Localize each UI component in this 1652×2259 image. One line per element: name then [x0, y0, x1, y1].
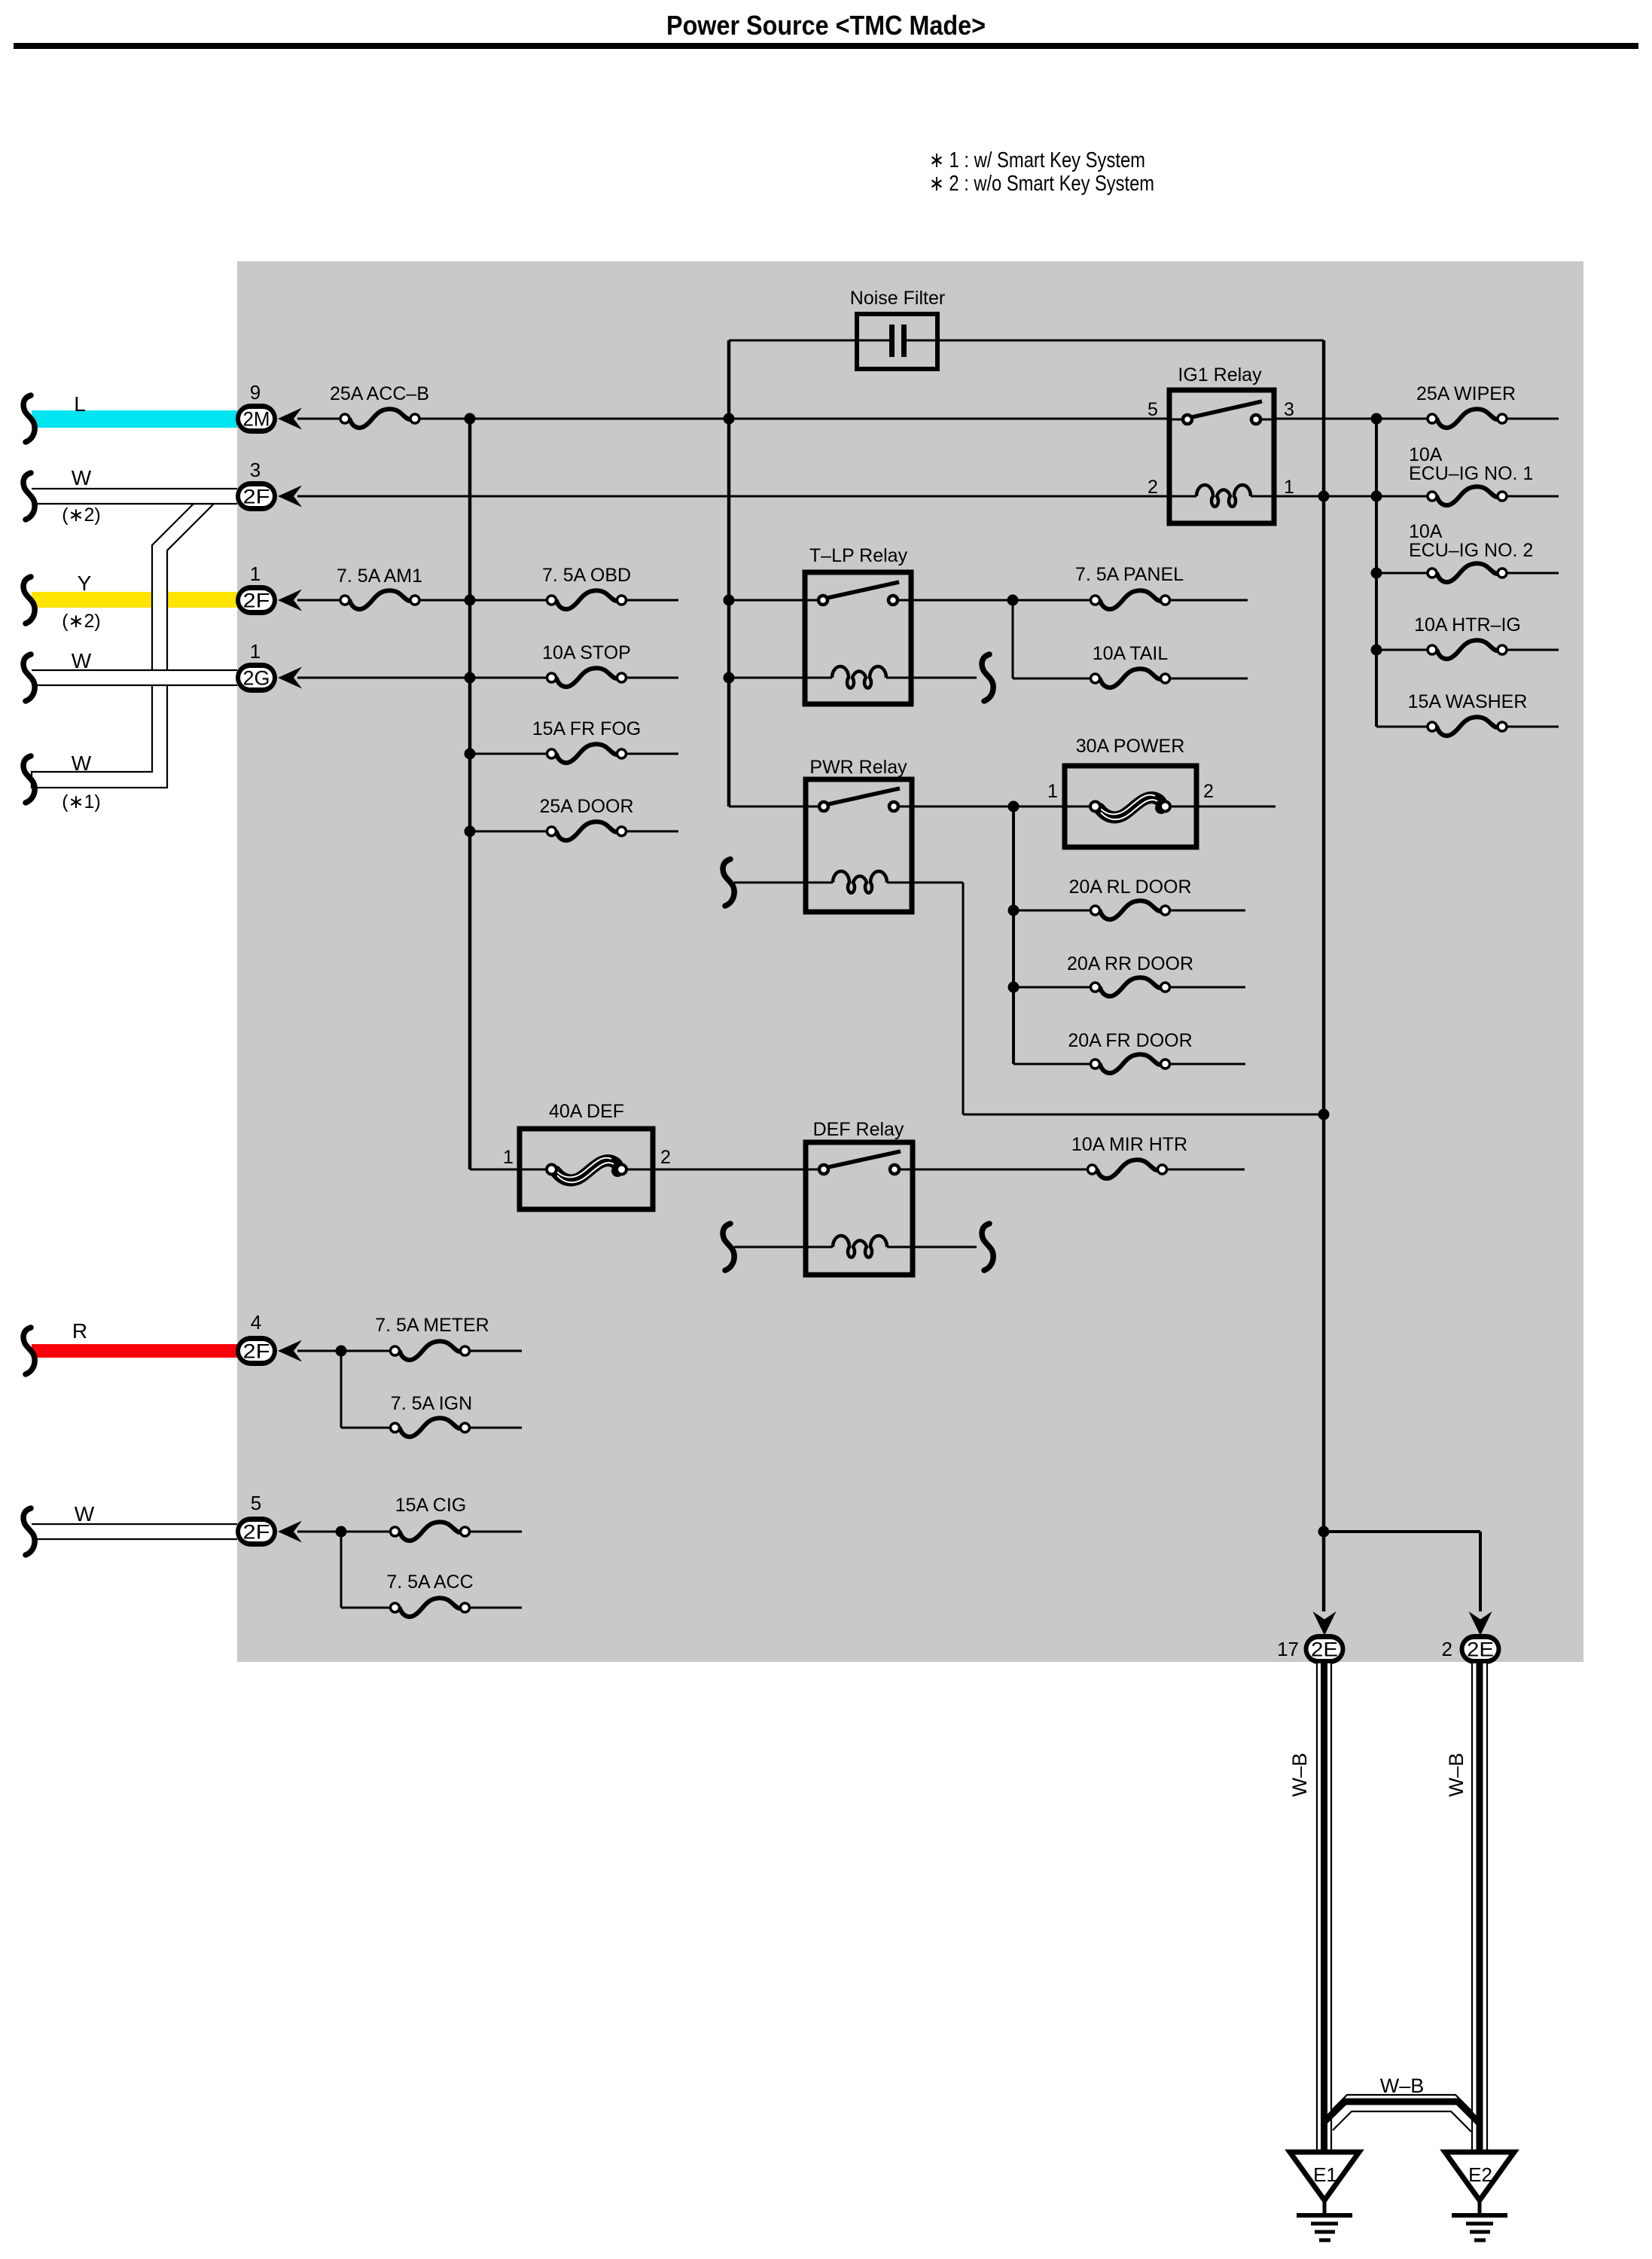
- svg-text:20A RL DOOR: 20A RL DOOR: [1068, 876, 1191, 898]
- svg-text:Noise Filter: Noise Filter: [850, 288, 945, 309]
- junction node IG1 pin1 row / main vertical: [1318, 491, 1330, 502]
- arrow into 2F pin 4: [278, 1340, 302, 1362]
- down arrow into 2E pin 2: [1469, 1611, 1492, 1636]
- fuse 7.5A ACC: [391, 1598, 470, 1617]
- svg-text:2: 2: [1148, 477, 1158, 498]
- wire break symbol Y wire: [23, 577, 35, 623]
- svg-text:2F: 2F: [243, 590, 270, 612]
- wire 20A FR DOOR fuse output: [1170, 1063, 1245, 1065]
- svg-text:(∗2): (∗2): [62, 611, 101, 632]
- svg-text:ECU–IG NO. 2: ECU–IG NO. 2: [1409, 540, 1533, 561]
- junction node STOP row / bus: [465, 672, 476, 684]
- svg-text:E1: E1: [1313, 2163, 1337, 2186]
- svg-text:2: 2: [660, 1147, 671, 1168]
- wire ACC-B fuse to IG1 relay pin 5: [420, 418, 1169, 420]
- svg-text:7. 5A PANEL: 7. 5A PANEL: [1075, 564, 1184, 585]
- junction node RL DOOR row: [1008, 905, 1020, 916]
- fuse 20A RL DOOR: [1091, 901, 1170, 919]
- junction node ECU-IG2 row / right bus: [1371, 568, 1382, 579]
- vertical bus from ACC-B node: [468, 419, 472, 1169]
- junction node PANEL/TAIL branch: [1007, 595, 1019, 606]
- wire 25A WIPER fuse output: [1507, 418, 1559, 420]
- wire 2F-5 to 15A CIG fuse: [297, 1531, 390, 1533]
- wire ECU-IG NO.2 fuse output: [1507, 572, 1559, 575]
- wire node up to Noise Filter: [729, 340, 857, 342]
- junction node HTR-IG row / right bus: [1371, 645, 1382, 656]
- wire node to 10A TAIL fuse: [1013, 678, 1090, 680]
- connector 2E pin 17: [1277, 1634, 1345, 1664]
- wire 30A POWER pin 1 lead: [1065, 806, 1091, 808]
- junction node ACC-B row / bus: [465, 413, 476, 425]
- relay T-LP: [805, 545, 911, 704]
- svg-text:2: 2: [1442, 1638, 1452, 1660]
- svg-text:(∗2): (∗2): [62, 505, 101, 526]
- svg-text:15A WASHER: 15A WASHER: [1408, 691, 1528, 712]
- fuse 15A WASHER: [1428, 717, 1507, 736]
- wire R (red) to 2F pin 4: [32, 1344, 237, 1358]
- fuse 25A WIPER: [1428, 409, 1507, 428]
- svg-text:E2: E2: [1468, 2163, 1492, 2186]
- connector 2F pin 3: [236, 459, 277, 511]
- wire 2F-4 to 7.5A METER fuse: [297, 1350, 390, 1352]
- fuse 7.5A IGN: [391, 1418, 470, 1437]
- connector 2F pin 1: [236, 562, 277, 615]
- wire 7.5A METER fuse output: [470, 1350, 522, 1352]
- wire PANEL node down to TAIL row: [1012, 600, 1014, 678]
- wire bus corner to PWR relay switch: [729, 806, 806, 808]
- down arrow into 2E pin 17: [1313, 1611, 1337, 1636]
- connector 2M pin 9: [236, 381, 277, 434]
- junction node METER/IGN branch: [336, 1346, 347, 1357]
- svg-text:7. 5A METER: 7. 5A METER: [375, 1315, 489, 1336]
- junction node FR FOG row / bus: [465, 748, 476, 760]
- svg-text:3: 3: [1284, 399, 1294, 420]
- wire bus to T-LP relay coil: [729, 677, 805, 679]
- wire break to PWR relay coil: [734, 882, 806, 884]
- svg-text:W: W: [72, 751, 92, 775]
- svg-text:7. 5A IGN: 7. 5A IGN: [391, 1393, 472, 1414]
- wire PWR relay switch to 30A POWER: [912, 806, 1065, 808]
- svg-text:9: 9: [250, 381, 261, 404]
- wire 2F-1 to 7.5A AM1 fuse: [297, 599, 340, 602]
- arrow into 2G pin 1: [278, 667, 302, 689]
- wire 30A POWER pin 2 lead: [1169, 806, 1196, 808]
- svg-text:PWR Relay: PWR Relay: [809, 757, 907, 778]
- wire DEF relay switch to 10A MIR HTR fuse: [913, 1169, 1087, 1171]
- wire bus corner to 40A DEF: [470, 1169, 520, 1171]
- fusible link 40A DEF: [503, 1101, 671, 1209]
- wire HTR-IG fuse output: [1507, 649, 1559, 651]
- svg-text:10A: 10A: [1409, 521, 1443, 542]
- svg-text:W–B: W–B: [1380, 2075, 1425, 2097]
- title underline: [14, 43, 1638, 49]
- relay IG1: [1169, 364, 1274, 523]
- wire 40A DEF to DEF relay switch: [653, 1169, 806, 1171]
- svg-text:4: 4: [251, 1311, 261, 1334]
- wire break symbol DEF coil input: [723, 1224, 734, 1270]
- svg-text:2F: 2F: [243, 1340, 270, 1363]
- wire 15A CIG fuse output: [470, 1531, 522, 1533]
- svg-text:25A ACC–B: 25A ACC–B: [330, 383, 429, 404]
- wire bus to HTR-IG fuse: [1376, 649, 1427, 651]
- wire break symbol DEF coil output: [982, 1224, 993, 1270]
- svg-text:10A STOP: 10A STOP: [542, 642, 631, 663]
- wire break symbol W (*1) wire: [23, 756, 35, 803]
- fuse 10A MIR HTR: [1088, 1160, 1167, 1178]
- junction node CIG/ACC branch: [336, 1526, 347, 1538]
- fuse 15A FR FOG: [547, 744, 626, 763]
- wire node down to ACC row: [340, 1532, 343, 1608]
- wire 7.5A PANEL fuse output: [1170, 599, 1248, 602]
- svg-text:25A WIPER: 25A WIPER: [1416, 383, 1516, 404]
- junction node ECU-IG1 row / right bus: [1371, 491, 1382, 502]
- svg-text:∗ 1 : w/ Smart Key System: ∗ 1 : w/ Smart Key System: [929, 148, 1145, 172]
- svg-text:1: 1: [503, 1147, 514, 1168]
- fuse 7.5A METER: [391, 1341, 470, 1360]
- svg-text:R: R: [72, 1319, 87, 1343]
- fuse 7.5A OBD: [547, 590, 626, 609]
- wire 7.5A OBD fuse output: [626, 599, 678, 602]
- wire break symbol R wire: [23, 1328, 35, 1374]
- black stripe of W-B link: [1324, 2102, 1480, 2123]
- wire bus to T-LP relay switch: [729, 599, 805, 602]
- svg-text:2: 2: [1203, 781, 1214, 802]
- wire W-B from 2E-17 to ground E1: [1316, 1663, 1332, 2154]
- connector 2G pin 1: [236, 640, 277, 693]
- wire 10A MIR HTR fuse output: [1167, 1169, 1245, 1171]
- junction node PWR coil return / main vertical: [1318, 1109, 1330, 1120]
- svg-text:Power Source <TMC Made>: Power Source <TMC Made>: [666, 10, 986, 41]
- junction node AM1 row / bus: [465, 595, 476, 606]
- junction node RR DOOR row: [1008, 982, 1020, 993]
- wire break symbol W wire 2G: [23, 654, 35, 701]
- wire bus to 15A FR FOG fuse: [470, 753, 547, 755]
- wire W (*2) to 2F pin 3: [32, 489, 237, 504]
- black stripe of W-B wire to E1: [1321, 1663, 1327, 2154]
- arrow into 2F pin 5: [278, 1521, 302, 1543]
- wire break symbol W wire 2F-5: [23, 1508, 35, 1555]
- svg-text:1: 1: [1284, 477, 1294, 498]
- wire break symbol L wire: [23, 395, 35, 442]
- wire node to 7.5A ACC fuse: [341, 1607, 390, 1609]
- svg-text:25A DOOR: 25A DOOR: [539, 796, 633, 817]
- fusible link 30A POWER: [1047, 736, 1214, 847]
- svg-text:15A FR FOG: 15A FR FOG: [532, 718, 641, 739]
- svg-text:W: W: [72, 649, 92, 672]
- wire 2G to 10A STOP fuse: [297, 677, 547, 679]
- wire AM1 fuse to node: [420, 599, 547, 602]
- svg-text:2F: 2F: [243, 486, 270, 508]
- fuse 25A ACC-B: [340, 409, 419, 428]
- vertical bus door fuses: [1012, 806, 1015, 1064]
- svg-text:L: L: [74, 392, 86, 416]
- junction node ground branch: [1318, 1526, 1330, 1538]
- junction node noise filter branch: [724, 413, 735, 425]
- junction node T-LP switch / bus: [724, 595, 735, 606]
- wire PWR coil output down: [962, 883, 965, 1114]
- fuse 25A DOOR: [547, 822, 626, 840]
- svg-text:IG1 Relay: IG1 Relay: [1178, 364, 1262, 386]
- connector 2F pin 4: [236, 1311, 277, 1366]
- wire W to 2G pin 1: [32, 670, 237, 685]
- svg-text:W–B: W–B: [1288, 1753, 1311, 1797]
- junction node DOOR row / bus: [465, 826, 476, 837]
- svg-text:T–LP Relay: T–LP Relay: [809, 545, 908, 566]
- svg-text:1: 1: [250, 640, 261, 663]
- svg-text:7. 5A OBD: 7. 5A OBD: [542, 565, 631, 586]
- arrow into 2F pin 1: [278, 590, 302, 611]
- wire WASHER fuse output: [1507, 726, 1559, 728]
- wire ECU-IG NO.1 fuse output: [1507, 495, 1559, 498]
- arrow into 2F pin 3: [278, 486, 302, 508]
- svg-text:17: 17: [1277, 1638, 1299, 1660]
- wire IG1 relay pin 3 to 25A WIPER fuse: [1274, 418, 1427, 420]
- relay PWR: [806, 757, 912, 912]
- wire node to 7.5A IGN fuse: [341, 1427, 390, 1429]
- main vertical to ground connector: [1322, 340, 1326, 1611]
- svg-text:W: W: [72, 466, 92, 489]
- fuse 7.5A AM1: [340, 590, 419, 609]
- svg-text:1: 1: [1047, 781, 1058, 802]
- svg-text:10A MIR HTR: 10A MIR HTR: [1071, 1134, 1187, 1155]
- wire W-B link between grounds: [1333, 2095, 1471, 2132]
- svg-text:5: 5: [251, 1492, 261, 1514]
- fuse 10A ECU-IG NO.1: [1428, 486, 1507, 505]
- wire 15A FR FOG fuse output: [626, 753, 678, 755]
- wire door bus corner to 20A FR DOOR fuse: [1013, 1063, 1090, 1065]
- svg-text:7. 5A ACC: 7. 5A ACC: [386, 1572, 473, 1593]
- wire branch to 2E pin 2: [1324, 1530, 1480, 1533]
- svg-text:1: 1: [250, 562, 261, 585]
- ground E2: [1445, 2152, 1514, 2240]
- wire 40A DEF pin 1 lead: [520, 1169, 547, 1171]
- svg-text:10A: 10A: [1409, 444, 1443, 465]
- IG1 relay pin labels 5 3 2 1: [1148, 399, 1294, 498]
- wire DEF relay coil output: [913, 1246, 977, 1248]
- wire bus corner to WASHER fuse: [1376, 726, 1427, 728]
- fuse 20A FR DOOR: [1091, 1054, 1170, 1073]
- svg-text:2E: 2E: [1311, 1639, 1338, 1661]
- arrow into 2M: [278, 408, 302, 430]
- wire node down to IGN row: [340, 1351, 343, 1428]
- ground E1: [1290, 2152, 1359, 2240]
- svg-text:20A FR DOOR: 20A FR DOOR: [1068, 1030, 1192, 1051]
- black stripe of W-B wire to E2: [1477, 1663, 1483, 2154]
- wire break to DEF relay coil: [734, 1246, 806, 1248]
- svg-text:∗ 2 : w/o Smart Key System: ∗ 2 : w/o Smart Key System: [929, 172, 1154, 196]
- svg-text:30A POWER: 30A POWER: [1076, 736, 1185, 757]
- wire break symbol PWR coil input: [723, 859, 734, 906]
- wire 25A DOOR fuse output: [626, 831, 678, 833]
- connector 2E pin 2: [1442, 1634, 1501, 1664]
- vertical bus noise filter node to PWR relay: [727, 340, 731, 806]
- wire break symbol T-LP coil output: [982, 654, 993, 701]
- wire 7.5A IGN fuse output: [470, 1427, 522, 1429]
- wire 2F-3 to IG1 relay pin 2: [297, 495, 1169, 498]
- wire PWR relay coil output: [912, 882, 963, 884]
- junction node T-LP coil / bus: [724, 672, 735, 684]
- wire T-LP relay switch to 7.5A PANEL fuse: [911, 599, 1090, 602]
- fuse 10A STOP: [547, 668, 626, 687]
- svg-text:(∗1): (∗1): [62, 791, 101, 812]
- wire PWR coil output to main vertical: [963, 1114, 1324, 1116]
- wire 30A POWER output: [1196, 806, 1276, 808]
- fuse 20A RR DOOR: [1091, 977, 1170, 996]
- svg-text:ECU–IG NO. 1: ECU–IG NO. 1: [1409, 463, 1533, 484]
- vertical bus right fuse column: [1375, 419, 1378, 727]
- svg-text:W: W: [75, 1502, 95, 1526]
- wire W-B from 2E-2 to ground E2: [1471, 1663, 1488, 2154]
- svg-text:2F: 2F: [243, 1521, 270, 1544]
- wire W to 2F pin 5: [32, 1524, 237, 1539]
- svg-text:10A HTR–IG: 10A HTR–IG: [1414, 614, 1521, 636]
- fuse 15A CIG: [391, 1522, 470, 1541]
- svg-text:2E: 2E: [1467, 1639, 1494, 1661]
- svg-text:40A DEF: 40A DEF: [549, 1101, 624, 1122]
- wire L (cyan) to 2M pin 9: [32, 410, 237, 428]
- wire bus to 25A DOOR fuse: [470, 831, 547, 833]
- wire Y (yellow) to 2F pin 1: [32, 592, 237, 608]
- wire door bus to 20A RR DOOR fuse: [1013, 986, 1090, 989]
- svg-text:7. 5A AM1: 7. 5A AM1: [337, 566, 422, 587]
- svg-text:20A RR DOOR: 20A RR DOOR: [1067, 953, 1193, 974]
- fuse 10A ECU-IG NO.2: [1428, 563, 1507, 582]
- fuse 7.5A PANEL: [1091, 590, 1170, 609]
- wire 10A STOP fuse output: [626, 677, 678, 679]
- wire bus to ECU-IG NO.2 fuse: [1376, 572, 1427, 575]
- wire 7.5A ACC fuse output: [470, 1607, 522, 1609]
- svg-text:2G: 2G: [243, 667, 270, 690]
- svg-text:Y: Y: [78, 572, 92, 595]
- wire 20A RL DOOR fuse output: [1170, 910, 1245, 912]
- svg-text:5: 5: [1148, 399, 1158, 420]
- fuse 10A HTR-IG: [1428, 640, 1507, 659]
- junction node POWER row / door bus: [1008, 801, 1020, 812]
- wire IG1 relay pin 1 to ECU-IG NO.1 fuse: [1274, 495, 1427, 498]
- wire down to 2E pin 2 connector: [1479, 1532, 1482, 1611]
- fuse 10A TAIL: [1091, 669, 1170, 687]
- svg-text:15A CIG: 15A CIG: [395, 1495, 467, 1516]
- wire door bus to 20A RL DOOR fuse: [1013, 910, 1090, 912]
- wire W (*1) routed up to 2F pin 3: [32, 504, 214, 788]
- svg-text:3: 3: [250, 459, 261, 481]
- noise filter (capacitor): [850, 288, 945, 369]
- wire 10A TAIL fuse output: [1170, 678, 1248, 680]
- wire T-LP relay coil output: [911, 677, 977, 679]
- svg-text:DEF Relay: DEF Relay: [813, 1119, 904, 1140]
- wire 20A RR DOOR fuse output: [1170, 986, 1245, 989]
- wire break symbol W (*2) wire: [23, 473, 35, 520]
- junction block shaded area: [237, 261, 1583, 1662]
- svg-text:W–B: W–B: [1445, 1753, 1468, 1797]
- wire 40A DEF pin 2 lead: [626, 1169, 653, 1171]
- svg-text:10A TAIL: 10A TAIL: [1093, 643, 1169, 664]
- wire Noise Filter to main vertical: [937, 340, 1324, 342]
- wire 2M to 25A ACC-B fuse: [297, 418, 340, 420]
- junction node WIPER row / right bus: [1371, 413, 1382, 425]
- relay DEF: [806, 1119, 913, 1275]
- connector 2F pin 5: [236, 1492, 277, 1547]
- svg-text:2M: 2M: [243, 408, 270, 431]
